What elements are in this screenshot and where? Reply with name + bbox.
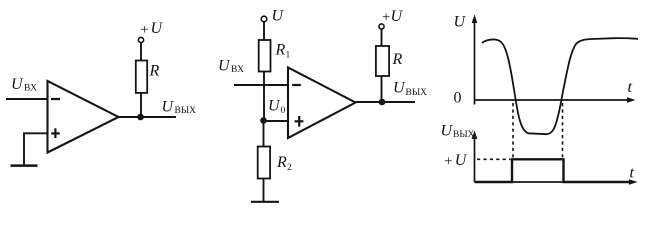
wire: resistor to +U terminal xyxy=(381,29,383,46)
svg-text:+: + xyxy=(444,154,452,170)
label R1 xyxy=(275,42,291,61)
terminal U (divider top) xyxy=(261,16,267,22)
wire: node up to resistor R xyxy=(381,76,383,102)
op-amp A1 xyxy=(48,81,119,153)
svg-text:R: R xyxy=(392,51,403,68)
svg-text:U: U xyxy=(151,20,164,37)
op-amp A2 xyxy=(288,68,356,139)
waveform: output pulse xyxy=(475,159,634,182)
dashed line: left switching instant xyxy=(512,103,514,158)
terminal +U (middle circuit) xyxy=(379,24,384,29)
node U0 (divider midpoint) xyxy=(260,117,267,124)
label U_BYX (lower axis) xyxy=(441,123,475,141)
svg-text:+: + xyxy=(382,10,390,26)
curve: input voltage waveform xyxy=(482,38,638,134)
dashed line: +U level xyxy=(477,158,511,160)
label +U (output level) xyxy=(444,152,467,170)
wire: terminal to R1 xyxy=(263,22,265,40)
resistor R (pull-up, left circuit) xyxy=(136,61,147,93)
svg-text:1: 1 xyxy=(286,51,291,61)
svg-text:+: + xyxy=(140,22,148,38)
svg-text:t: t xyxy=(630,165,635,182)
wire: op-amp output xyxy=(356,101,416,103)
label U0 xyxy=(268,98,286,117)
svg-text:R: R xyxy=(276,154,287,171)
wire: non-inverting input to ground xyxy=(24,133,48,164)
svg-text:U: U xyxy=(393,80,406,97)
wire: node U0 to non-inverting pin xyxy=(264,120,289,122)
label U_BX (input net, left circuit) xyxy=(11,76,37,94)
plus sign (non-inverting input) xyxy=(295,116,304,127)
svg-text:0: 0 xyxy=(454,90,462,107)
svg-text:ВХ: ВХ xyxy=(24,84,37,94)
svg-text:ВЫХ: ВЫХ xyxy=(406,88,428,98)
wire: input to inverting pin xyxy=(6,98,48,100)
ground (middle circuit) xyxy=(251,201,279,203)
axis: U vertical (upper graph) xyxy=(472,15,478,105)
resistor R (pull-up, middle circuit) xyxy=(376,46,389,76)
plus sign (non-inverting input) xyxy=(51,128,60,138)
svg-text:ВХ: ВХ xyxy=(231,65,244,75)
svg-text:U: U xyxy=(391,8,404,25)
label U_BYX (output net, left circuit) xyxy=(162,99,197,117)
label R2 xyxy=(276,154,292,173)
resistor R2 xyxy=(258,147,270,179)
svg-text:U: U xyxy=(218,58,231,75)
terminal +U (left circuit) xyxy=(138,37,143,42)
svg-text:R: R xyxy=(149,63,160,80)
svg-text:2: 2 xyxy=(287,163,292,173)
axis: t horizontal (lower graph) xyxy=(475,179,638,185)
wire: op-amp output xyxy=(119,116,177,118)
svg-text:U: U xyxy=(455,152,468,169)
dashed line: right switching instant xyxy=(562,103,564,158)
wire: R2 to ground xyxy=(263,179,265,202)
minus sign (inverting input) xyxy=(292,84,301,86)
svg-text:U: U xyxy=(272,8,285,25)
label +U (middle circuit) xyxy=(382,8,404,26)
resistor R1 xyxy=(259,40,271,72)
wire: node U0 down to R2 xyxy=(263,121,265,147)
wire: input to inverting pin (crosses divider) xyxy=(234,84,288,86)
svg-text:U: U xyxy=(268,98,281,115)
wire: resistor to +U terminal xyxy=(140,43,142,61)
node: output junction (middle circuit) xyxy=(379,99,386,106)
svg-text:0: 0 xyxy=(281,106,286,116)
svg-text:U: U xyxy=(441,123,454,140)
minus sign (inverting input) xyxy=(51,98,60,100)
svg-text:U: U xyxy=(11,76,24,93)
svg-text:U: U xyxy=(162,99,175,116)
svg-text:t: t xyxy=(628,79,633,96)
node: output junction xyxy=(137,114,144,121)
wire: node up to resistor R xyxy=(140,93,142,117)
axis: U_BYX vertical (lower graph) xyxy=(472,131,478,183)
label U_BX (input net, middle circuit) xyxy=(218,58,244,76)
label U_BYX (output net, middle circuit) xyxy=(393,80,427,99)
svg-text:ВЫХ: ВЫХ xyxy=(453,130,475,140)
svg-text:ВЫХ: ВЫХ xyxy=(175,106,197,116)
svg-text:R: R xyxy=(275,42,286,59)
ground (left circuit) xyxy=(11,164,38,167)
svg-text:U: U xyxy=(454,14,467,31)
wire: R1 down to node U0 xyxy=(263,72,265,121)
label +U xyxy=(140,20,163,38)
axis: t horizontal (upper graph, zero line) xyxy=(475,97,636,103)
